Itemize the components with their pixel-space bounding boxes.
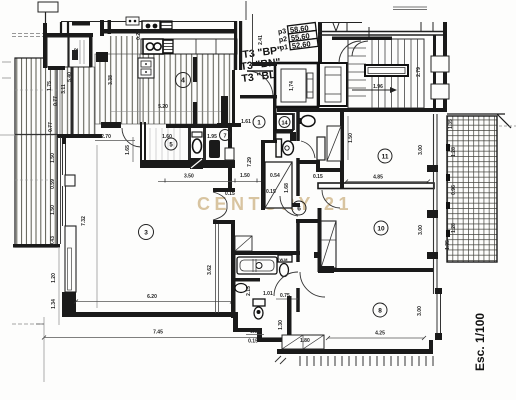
svg-text:1.75: 1.75 — [47, 81, 53, 91]
svg-text:Esc. 1/100: Esc. 1/100 — [473, 313, 487, 371]
wall right of small rooms — [89, 33, 93, 67]
svg-text:0.15: 0.15 — [266, 189, 276, 195]
svg-text:1.34: 1.34 — [51, 299, 57, 309]
wall x296 corridor right — [296, 110, 300, 312]
wall between 10 and 8 — [318, 266, 433, 273]
svg-text:2.70: 2.70 — [101, 134, 111, 140]
wall stub from box — [45, 12, 47, 23]
room3 top wall — [57, 122, 121, 138]
wall horizontal top-left — [43, 33, 93, 37]
dim 2.70 top of room3 — [95, 134, 135, 141]
bath B block — [231, 251, 300, 318]
room 11 left wall — [340, 112, 344, 188]
svg-text:1.35: 1.35 — [445, 240, 451, 250]
top edge marks far right — [393, 7, 427, 10]
wall x193 kitchen-hall — [193, 57, 197, 127]
door leaf room 11 — [327, 126, 341, 161]
svg-text:1.28: 1.28 — [451, 147, 457, 157]
svg-text:7.32: 7.32 — [81, 216, 87, 226]
svg-text:p2: p2 — [279, 36, 288, 44]
door arc into lobby — [247, 71, 273, 97]
dims row y178 — [158, 173, 323, 197]
svg-text:0.96: 0.96 — [451, 185, 457, 195]
corridor wall below door — [231, 224, 235, 255]
wall corridor to room10 — [296, 219, 321, 223]
svg-text:7.45: 7.45 — [153, 330, 163, 336]
shower box — [265, 162, 292, 208]
dark threshold box with diagonal — [190, 158, 203, 169]
svg-text:7: 7 — [223, 134, 226, 140]
svg-text:14: 14 — [281, 121, 288, 127]
pillar boxes on right wall top — [431, 56, 449, 72]
svg-text:2.79: 2.79 — [416, 67, 422, 77]
wall y123 hall top — [217, 123, 241, 127]
dim 1.65 — [125, 137, 133, 162]
svg-text:1.80: 1.80 — [300, 338, 310, 344]
bath A bidet dark — [209, 140, 220, 158]
svg-text:1.50: 1.50 — [50, 205, 56, 215]
svg-text:1.96: 1.96 — [373, 84, 383, 90]
svg-text:2.41: 2.41 — [258, 35, 264, 45]
window strip room 8 — [435, 288, 442, 340]
svg-text:0.25: 0.25 — [136, 30, 142, 40]
wall y203 sanitary bottom — [261, 203, 300, 207]
hatch under party wall left of counter — [107, 36, 141, 54]
bath A toilet — [192, 132, 202, 153]
svg-text:3.11: 3.11 — [61, 84, 67, 94]
door arc corridor — [280, 196, 298, 216]
room 11 circle — [378, 149, 392, 163]
wardrobe with diagonals — [282, 335, 324, 349]
machine shaft right of elevator — [319, 63, 347, 106]
door arc bath C — [274, 272, 298, 296]
bath A walls — [140, 122, 232, 192]
wall tab room10 left — [314, 252, 321, 258]
svg-text:11: 11 — [382, 154, 389, 161]
wc fixture top-left — [72, 50, 78, 60]
right wall of rooms block: window lines — [434, 114, 438, 294]
washbasin oval — [301, 116, 315, 127]
paper holder blob — [290, 132, 296, 141]
washbasin tap blob — [297, 118, 301, 124]
divider lines wc — [295, 113, 298, 130]
duct stub dark — [221, 96, 228, 124]
svg-text:1.50: 1.50 — [348, 133, 354, 143]
svg-text:1,74: 1,74 — [289, 81, 295, 91]
wall y140 sanitary divider — [261, 140, 277, 143]
dims 1.01 0.75 — [263, 291, 298, 299]
pillar box left wall 2 — [65, 226, 76, 292]
wall vertical top-left — [43, 23, 47, 68]
walls above small rooms — [61, 22, 68, 33]
svg-text:3.00: 3.00 — [418, 145, 424, 155]
top wall second small room — [72, 22, 90, 26]
svg-text:1.61: 1.61 — [241, 119, 251, 125]
svg-text:1.50: 1.50 — [240, 173, 250, 179]
hall strip divider wall — [71, 67, 74, 135]
svg-text:3.38: 3.38 — [108, 75, 114, 85]
bath A floor tile lines — [150, 128, 180, 160]
lintel wall above lobby door — [252, 62, 277, 66]
svg-text:4.85: 4.85 — [373, 175, 383, 181]
room 8 circle — [373, 303, 387, 317]
svg-text:0.77: 0.77 — [53, 96, 59, 106]
room3 left wall top piece — [62, 134, 66, 144]
bathtub — [237, 257, 277, 274]
wall x273 sanitary left — [273, 95, 277, 142]
door leaf bath B — [235, 236, 252, 251]
area table p1 p2 p3 — [277, 23, 318, 52]
wall y278 — [232, 278, 260, 282]
window lines room3 left — [58, 137, 61, 244]
divider small rooms — [67, 37, 69, 67]
wall between rooms 11 and 10 — [318, 183, 434, 189]
room3 bottom wall — [62, 312, 238, 317]
double door leaves — [213, 192, 227, 220]
svg-text:1.50: 1.50 — [50, 153, 56, 163]
property line left — [0, 134, 15, 136]
circle 7 — [220, 130, 231, 141]
room3 bottom corner step — [62, 292, 76, 317]
kitchen left wall — [100, 20, 104, 36]
room10 left wall — [318, 208, 322, 272]
svg-text:1.95: 1.95 — [207, 134, 217, 140]
outer right wall — [443, 22, 447, 112]
wall top of rooms band y110 — [277, 108, 447, 112]
stair entry door arc — [339, 41, 361, 63]
wc room 14: box with circle label — [276, 114, 293, 134]
lobby left wall above elevator — [318, 22, 322, 63]
door arc room3 top — [122, 128, 141, 147]
kitchen counter row — [141, 39, 237, 54]
top thin line kitchen — [61, 21, 237, 23]
dim 0.60 — [246, 329, 264, 335]
toilet wc14 — [276, 139, 294, 157]
pillar box corridor left wall — [225, 148, 234, 160]
svg-text:1.35: 1.35 — [448, 119, 454, 129]
neighbour kitchen sink unit — [142, 21, 172, 31]
balcony left (hatched deck) — [13, 58, 60, 248]
toilet bath C — [253, 299, 265, 319]
dim 4.85 with line — [344, 175, 430, 184]
dim 4.25 room8 — [326, 331, 426, 341]
appliance box in kitchen — [138, 58, 154, 78]
staircase — [332, 37, 424, 109]
svg-text:1.28: 1.28 — [451, 223, 457, 233]
small dotted box top strip — [126, 17, 139, 25]
left margin dashes — [2, 62, 11, 78]
window wall lines room3 left — [63, 144, 66, 226]
kitchen party wall — [103, 29, 237, 34]
dim 1.50 room11 — [348, 116, 354, 160]
svg-text:4: 4 — [181, 78, 185, 85]
bottom hatch ticks — [300, 356, 433, 366]
svg-text:W.M: W.M — [280, 257, 289, 262]
dim 6.20 with line — [74, 294, 234, 304]
wc oval bath B — [280, 264, 289, 277]
small room dims top-left — [61, 48, 228, 112]
terrace dims right — [445, 119, 457, 250]
balcony divider line — [15, 134, 57, 136]
svg-text:0.92: 0.92 — [74, 48, 80, 58]
door leaf box room10 — [321, 221, 336, 268]
elevator shaft — [275, 63, 318, 107]
wall x261 sanitary left lower — [261, 140, 265, 210]
svg-text:0.77: 0.77 — [48, 122, 54, 132]
svg-text:0.60: 0.60 — [250, 329, 260, 335]
room 10 circle — [374, 221, 388, 235]
washbasin bath C — [235, 284, 247, 293]
small room bottom wall — [48, 66, 65, 70]
svg-text:5.40: 5.40 — [67, 72, 73, 82]
svg-text:7.29: 7.29 — [247, 157, 253, 167]
double door stub walls — [213, 188, 235, 224]
svg-text:3.62: 3.62 — [207, 265, 213, 275]
wall tabs right side — [427, 165, 438, 354]
dim line below balcony — [58, 248, 60, 325]
room 4 circle — [176, 73, 191, 88]
door arc room8 — [300, 272, 325, 297]
dashed property line top-left — [12, 34, 43, 37]
circle 6 — [292, 201, 306, 215]
hall bottom walls — [297, 160, 341, 172]
bottom wall right part — [277, 349, 433, 354]
wall right of kitchen (double) — [234, 21, 242, 70]
hall floor strip (hatched) — [60, 67, 95, 135]
svg-text:p3: p3 — [278, 28, 287, 36]
room 3 circle — [139, 225, 154, 240]
svg-text:0.54: 0.54 — [270, 173, 280, 179]
door arc room10 — [322, 190, 340, 208]
svg-text:3: 3 — [144, 230, 148, 237]
lobby axis lines — [246, 1, 253, 62]
svg-text:0.59: 0.59 — [50, 179, 56, 189]
svg-text:1.60: 1.60 — [162, 134, 172, 140]
stair block top outer wall lines — [318, 22, 447, 39]
left edge dims column — [47, 81, 59, 309]
door arc wc — [301, 141, 315, 158]
top-left small box above wall — [38, 2, 58, 12]
radiator box hall — [317, 137, 325, 160]
washing machine — [278, 255, 292, 262]
svg-text:3.00: 3.00 — [418, 225, 424, 235]
room3 right partition thin lines — [216, 224, 219, 313]
svg-text:5.20: 5.20 — [158, 104, 168, 110]
pillar box left wall 1 — [65, 175, 75, 186]
stair right wall — [433, 35, 436, 108]
stair bottom wall — [345, 108, 447, 112]
wall x232 kitchen right lower — [232, 70, 235, 124]
circle 1 hall — [253, 116, 265, 128]
living/kitchen floor (hatched) — [95, 54, 140, 124]
svg-text:6: 6 — [297, 206, 301, 213]
svg-text:4.25: 4.25 — [375, 331, 385, 337]
small rooms box top-left — [47, 37, 91, 67]
svg-text:3.00: 3.00 — [417, 306, 423, 316]
svg-text:2.15: 2.15 — [246, 286, 252, 296]
svg-text:3.50: 3.50 — [184, 174, 194, 180]
dim line x97 room3 — [96, 145, 98, 308]
svg-text:8: 8 — [378, 308, 382, 315]
circle 5 — [165, 138, 177, 150]
step walls bottom center — [233, 296, 292, 354]
svg-text:1.68: 1.68 — [284, 183, 290, 193]
svg-text:1.20: 1.20 — [51, 273, 57, 283]
svg-text:0.15: 0.15 — [313, 174, 323, 180]
svg-text:0.15: 0.15 — [248, 339, 258, 345]
svg-text:0.43: 0.43 — [50, 236, 56, 246]
dim 7.45 with line — [12, 317, 290, 382]
door leaf lobby — [247, 70, 273, 72]
bath block bottom thick wall — [140, 160, 235, 168]
hall wall y95 — [240, 95, 277, 99]
svg-text:1.65: 1.65 — [125, 145, 131, 155]
svg-text:10: 10 — [377, 226, 385, 233]
terrace right (grid hatched) — [446, 114, 516, 262]
svg-text:1.01: 1.01 — [263, 291, 273, 297]
svg-text:1.30: 1.30 — [278, 320, 284, 330]
svg-text:6.20: 6.20 — [147, 294, 157, 300]
